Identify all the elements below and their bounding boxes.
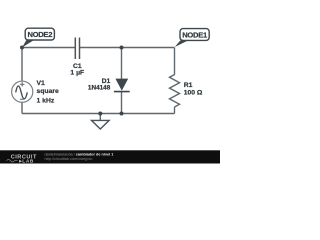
svg-text:NODE1: NODE1 — [182, 30, 208, 39]
svg-text:1 µF: 1 µF — [70, 70, 84, 77]
svg-text:danielmarulanda / cambiador de: danielmarulanda / cambiador de nivel 1 — [45, 152, 114, 156]
svg-text:▸LAB: ▸LAB — [18, 158, 34, 164]
svg-text:1N4148: 1N4148 — [88, 85, 111, 92]
svg-text:square: square — [37, 88, 60, 95]
svg-text:R1: R1 — [184, 82, 193, 89]
svg-text:http://circuitlab.com/csm|pxu: http://circuitlab.com/csm|pxu — [45, 157, 93, 161]
svg-text:NODE2: NODE2 — [27, 30, 52, 39]
svg-text:100 Ω: 100 Ω — [184, 90, 203, 97]
svg-text:V1: V1 — [37, 80, 46, 87]
svg-text:1 kHz: 1 kHz — [37, 98, 55, 105]
